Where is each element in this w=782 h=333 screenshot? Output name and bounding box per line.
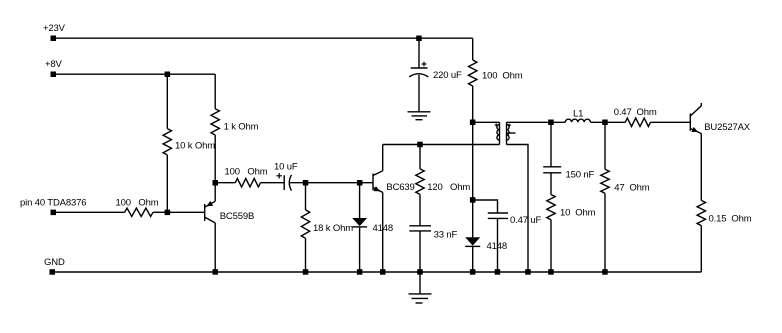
svg-text:120 Ohm: 120 Ohm bbox=[427, 182, 470, 193]
node emitter junction bbox=[213, 180, 219, 186]
wire pin 40 to 100 Ohm bbox=[53, 211, 125, 213]
node 150nF junction bbox=[548, 120, 554, 126]
resistor 10 Ohm bbox=[547, 195, 555, 220]
transformer T1 secondary bbox=[507, 122, 510, 144]
wire secondary top to L1 bbox=[507, 121, 566, 123]
svg-text:18 k Ohm: 18 k Ohm bbox=[313, 223, 353, 234]
ground (chassis below GND rail) bbox=[409, 294, 432, 303]
node base junction bbox=[165, 210, 171, 216]
wire 0.47uF to GND bbox=[497, 218, 499, 272]
node 120 Ohm junction bbox=[417, 142, 423, 148]
wire L1 to 0.47 Ohm bbox=[591, 121, 626, 123]
wire GND to chassis ground bbox=[419, 272, 421, 294]
node snubber junction bbox=[470, 197, 476, 203]
svg-text:100 Ohm: 100 Ohm bbox=[225, 167, 268, 178]
wire 0.47 Ohm to BU2527AX base bbox=[651, 121, 691, 123]
resistor 0.47 Ohm bbox=[625, 118, 650, 126]
transistor BU2527AX bbox=[690, 106, 701, 134]
node GND 18k bbox=[303, 269, 309, 275]
node 47 Ohm junction bbox=[602, 120, 608, 126]
capacitor 10 uF bbox=[276, 173, 291, 191]
diode 4148 (left) bbox=[352, 218, 367, 227]
node GND diode 4148 (right) bbox=[470, 269, 476, 275]
svg-text:0.15 Ohm: 0.15 Ohm bbox=[709, 213, 752, 224]
transistor BC639 bbox=[373, 171, 383, 193]
wire 33nF to GND bbox=[419, 231, 421, 272]
node pin 40 terminal bbox=[51, 210, 57, 216]
node GND BC639 emitter bbox=[380, 269, 386, 275]
wire 47 Ohm top bbox=[604, 122, 606, 169]
wire 10uF to 18k node bbox=[289, 182, 305, 184]
capacitor 33 nF bbox=[409, 226, 431, 231]
svg-text:BC559B: BC559B bbox=[220, 211, 254, 222]
capacitor 0.47 uF bbox=[488, 213, 508, 218]
wire 1k to emitter node bbox=[214, 135, 216, 183]
svg-text:0.47 uF: 0.47 uF bbox=[510, 215, 542, 226]
node GND 47 Ohm bbox=[602, 269, 608, 275]
transistor BC559B bbox=[205, 201, 216, 223]
node GND 10 Ohm bbox=[548, 269, 554, 275]
wire 18k to GND bbox=[305, 238, 307, 272]
node +23V terminal bbox=[51, 36, 57, 42]
node GND secondary bbox=[525, 269, 531, 275]
wire 120 Ohm to 33nF bbox=[419, 194, 421, 225]
resistor 100 Ohm (emitter) bbox=[235, 179, 260, 187]
resistor 100 Ohm (pin 40) bbox=[125, 208, 153, 216]
wire diode 4148 anode bbox=[359, 183, 361, 218]
wire 150nF to 10 Ohm bbox=[550, 173, 552, 195]
wire 18k node to diode node bbox=[306, 182, 360, 184]
wire emitter node to 100 Ohm bbox=[215, 182, 235, 184]
wire 100 Ohm to base node bbox=[153, 211, 167, 213]
svg-text:47 Ohm: 47 Ohm bbox=[614, 183, 650, 194]
svg-text:33 nF: 33 nF bbox=[434, 229, 458, 240]
svg-text:10 Ohm: 10 Ohm bbox=[560, 208, 596, 219]
wire BC639 emitter to GND bbox=[382, 192, 384, 272]
wire 0.15 Ohm to GND corner bbox=[700, 226, 702, 272]
wire 47 Ohm to GND bbox=[604, 193, 606, 272]
polarity mark primary bbox=[495, 123, 498, 126]
wire +23V rail bbox=[53, 37, 473, 39]
resistor 0.15 Ohm bbox=[697, 200, 705, 225]
wire diode 4148 (right) anode bbox=[472, 200, 474, 237]
node GND BC559B collector bbox=[213, 269, 219, 275]
wire +8V to 10k bbox=[166, 74, 168, 128]
wire collector rail to transformer primary bbox=[383, 144, 500, 146]
wire snubber node to 0.47uF bbox=[473, 200, 498, 213]
svg-text:GND: GND bbox=[44, 257, 65, 268]
resistor 47 Ohm bbox=[601, 169, 609, 193]
node GND terminal bbox=[50, 269, 56, 275]
svg-text:0.47 Ohm: 0.47 Ohm bbox=[614, 107, 657, 118]
wire primary top bbox=[473, 121, 500, 123]
resistor 120 Ohm bbox=[416, 169, 424, 195]
wire BU2527AX emitter to 0.15 Ohm bbox=[700, 134, 702, 201]
polarity mark secondary bbox=[508, 124, 511, 127]
ground (below 220uF) bbox=[408, 112, 431, 120]
node GND 33nF bbox=[417, 269, 423, 275]
svg-text:100 Ohm: 100 Ohm bbox=[116, 198, 159, 209]
wire diode 4148 cathode to GND bbox=[359, 227, 361, 272]
wire BC559B emitter up bbox=[214, 183, 216, 202]
capacitor 150 nF bbox=[543, 167, 561, 173]
svg-text:100 Ohm: 100 Ohm bbox=[482, 71, 523, 82]
svg-text:1 k Ohm: 1 k Ohm bbox=[224, 122, 259, 133]
wire 120 Ohm top bbox=[419, 145, 421, 169]
wire diode node to BC639 base bbox=[360, 182, 373, 184]
wire 150nF top bbox=[550, 122, 552, 167]
node 10uF 18k junction bbox=[303, 180, 309, 186]
node 220uF junction bbox=[416, 36, 422, 42]
svg-text:220 uF: 220 uF bbox=[433, 70, 462, 81]
node diode 4148 junction bbox=[357, 180, 363, 186]
node GND diode 4148 (left) bbox=[357, 269, 363, 275]
resistor 18 k Ohm bbox=[301, 210, 309, 238]
wire 10 Ohm to GND bbox=[550, 220, 552, 272]
inductor L1 bbox=[565, 119, 590, 122]
wire 220uF to ground bbox=[418, 75, 420, 112]
resistor 10 k Ohm bbox=[163, 129, 171, 155]
wire BC559B collector to GND bbox=[214, 223, 216, 272]
wire BU2527AX collector stub bbox=[700, 103, 702, 106]
node primary supply junction bbox=[470, 120, 476, 126]
wire GND rail bbox=[52, 271, 701, 273]
resistor 100 Ohm (supply) bbox=[469, 60, 477, 86]
svg-text:4148: 4148 bbox=[487, 241, 508, 252]
transformer T1 primary bbox=[497, 122, 500, 144]
wire supply node down to snubber node (crossover) bbox=[472, 122, 474, 200]
svg-text:+23V: +23V bbox=[43, 23, 66, 34]
svg-text:150 nF: 150 nF bbox=[566, 169, 595, 180]
wire secondary bottom to GND bbox=[507, 145, 529, 273]
wire diode 4148 (right) cathode to GND bbox=[472, 246, 474, 272]
wire 100 Ohm to primary node bbox=[472, 86, 474, 122]
svg-text:L1: L1 bbox=[573, 109, 583, 120]
resistor 1 k Ohm bbox=[211, 109, 219, 135]
svg-text:BU2527AX: BU2527AX bbox=[704, 122, 751, 133]
node GND 0.47uF bbox=[495, 269, 501, 275]
svg-text:10 uF: 10 uF bbox=[274, 162, 298, 173]
svg-text:pin 40 TDA8376: pin 40 TDA8376 bbox=[20, 198, 86, 209]
wire 220uF top bbox=[418, 38, 420, 68]
wire base node to BC559B base bbox=[167, 211, 204, 213]
capacitor 220 uF bbox=[409, 62, 428, 77]
wire 18k top bbox=[305, 183, 307, 210]
wire +8V rail bbox=[53, 73, 215, 75]
svg-text:+8V: +8V bbox=[45, 59, 63, 70]
svg-text:BC639: BC639 bbox=[386, 182, 414, 193]
wire 100 Ohm to 10uF bbox=[261, 182, 285, 184]
wire +23V corner to 100 Ohm bbox=[472, 38, 474, 60]
node +8V 10k junction bbox=[165, 72, 171, 78]
svg-text:10 k Ohm: 10 k Ohm bbox=[175, 141, 215, 152]
wire 10k to base node bbox=[166, 155, 168, 212]
wire secondary tap stub bbox=[507, 132, 516, 134]
node +8V terminal bbox=[51, 72, 57, 78]
wire +8V corner to 1k bbox=[214, 74, 216, 109]
diode 4148 (right) bbox=[465, 237, 480, 246]
wire BC639 collector up bbox=[382, 145, 384, 171]
